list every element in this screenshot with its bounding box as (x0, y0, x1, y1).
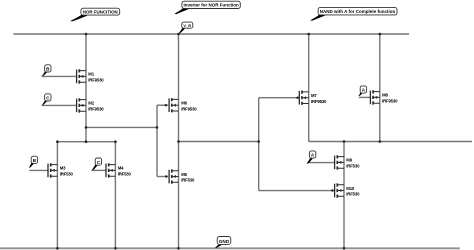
junction VDD/M1 column (85, 33, 88, 36)
wire VDD rail (14, 33, 410, 35)
junction NAND node M8 column (379, 140, 382, 143)
svg-text:M3: M3 (60, 166, 66, 171)
junction M6 gate pin (165, 104, 167, 106)
callout input label A (M9 gate) (307, 151, 316, 164)
transistor M7 IRF9530 (299, 91, 327, 105)
wire inverter gate link vertical (156, 105, 158, 176)
wire M8 gate lead (359, 96, 371, 98)
svg-text:IRF530: IRF530 (118, 172, 132, 177)
junction M10 gate pin (331, 189, 333, 191)
svg-text:IRF9530: IRF9530 (88, 78, 104, 83)
junction VDD/M8 column (379, 33, 382, 36)
wire M6 gate lead (157, 104, 169, 106)
callout label NOR FUNCITION (70, 8, 119, 21)
svg-text:IRF9530: IRF9530 (311, 99, 327, 104)
wire M4 drain-source column (114, 142, 116, 249)
junction GND/M4 (114, 247, 117, 250)
svg-text:M9: M9 (346, 158, 352, 163)
wire GND rail (0, 247, 460, 249)
wire M1/M2 column (VDD to NOR node) (85, 34, 87, 142)
callout input label C (M4 gate) (92, 158, 102, 170)
callout input label C (M2 gate) (42, 94, 51, 105)
wire NOR bottom node horizontal (57, 141, 115, 143)
junction M7 gate pin (296, 97, 298, 99)
svg-text:M10: M10 (346, 186, 355, 191)
svg-text:IRF9530: IRF9530 (382, 99, 398, 104)
junction inverter input (156, 126, 159, 129)
callout input label A (M8 gate) (358, 86, 366, 96)
transistor M10 IRF530 (335, 183, 361, 197)
wire inverter output horizontal (179, 141, 260, 143)
svg-text:M4: M4 (118, 166, 124, 171)
junction NOR output branch (85, 126, 88, 129)
wire to M7 gate (259, 97, 300, 99)
svg-text:IRF9530: IRF9530 (88, 107, 104, 112)
svg-text:M2: M2 (88, 101, 94, 106)
wire M8 column (379, 34, 381, 142)
svg-text:IRF530: IRF530 (346, 164, 360, 169)
svg-text:M7: M7 (311, 93, 317, 98)
callout label NAND with A for Complete function (310, 7, 397, 20)
junction GND/M3 (56, 247, 59, 250)
transistor M3 IRF530 (48, 163, 74, 177)
transistor M8 IRF9530 (370, 90, 398, 104)
wire M9/M10 column (NAND node to GND) (343, 142, 345, 249)
callout input label B (M3 gate) (29, 156, 38, 168)
svg-text:GND: GND (219, 239, 230, 244)
transistor M5 IRF530 (169, 169, 195, 183)
transistor M4 IRF530 (106, 163, 132, 177)
wire M3 gate lead (29, 169, 48, 171)
callout net label V_R (179, 22, 193, 33)
wire M4 gate lead (92, 169, 107, 171)
junction NAND input branch (257, 140, 260, 143)
svg-text:V_R: V_R (183, 23, 191, 28)
wire NOR output to inverter input (86, 126, 157, 128)
callout label Inverter for NOR Function (175, 1, 241, 14)
transistor M2 IRF9530 (77, 98, 105, 112)
wire M3 drain-source column (56, 142, 58, 249)
transistor M6 IRF9530 (169, 98, 197, 112)
transistor M1 IRF9530 (77, 69, 105, 83)
transistor M9 IRF530 (335, 155, 361, 169)
wire M2 gate lead (42, 104, 78, 106)
junction NAND node M9 column (343, 140, 346, 143)
junction NOR node center (85, 140, 88, 143)
svg-text:NAND with A for Complete funct: NAND with A for Complete function (320, 9, 396, 14)
svg-text:Inverter for NOR Function: Inverter for NOR Function (183, 3, 239, 8)
wire M1 gate lead (42, 75, 78, 77)
svg-text:M5: M5 (181, 172, 187, 177)
svg-text:NOR FUNCITION: NOR FUNCITION (83, 9, 118, 14)
svg-text:M8: M8 (382, 93, 388, 98)
svg-text:IRF530: IRF530 (181, 178, 195, 183)
wire inverter column (VDD to GND) (178, 34, 180, 248)
svg-text:M1: M1 (88, 72, 94, 77)
junction GND/M10 (343, 247, 346, 250)
junction M5 gate pin (165, 175, 167, 177)
wire M9 gate lead (307, 162, 335, 164)
junction VDD/M7 column (307, 33, 310, 36)
svg-text:M6: M6 (181, 101, 187, 106)
wire M5 gate lead (157, 176, 169, 178)
svg-text:IRF530: IRF530 (60, 172, 74, 177)
junction inverter output (177, 140, 180, 143)
wire NAND output horizontal (309, 141, 472, 143)
junction NOR node right corner (114, 140, 117, 143)
callout net label GND (215, 237, 231, 249)
junction GND/M5 (177, 247, 180, 250)
svg-text:IRF9530: IRF9530 (181, 106, 197, 111)
junction NOR node left corner (56, 140, 59, 143)
wire M7 column (308, 34, 310, 142)
junction VDD/M6 column (177, 33, 180, 36)
callout input label B (M1 gate) (42, 65, 51, 76)
wire NAND input vertical (258, 98, 260, 191)
svg-text:IRF530: IRF530 (346, 192, 360, 197)
wire to M10 gate (259, 190, 336, 192)
